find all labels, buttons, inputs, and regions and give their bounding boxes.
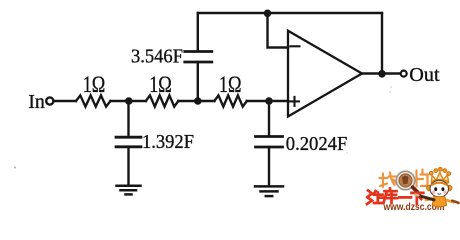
svg-text:1Ω: 1Ω	[149, 72, 172, 97]
svg-text:0.2024F: 0.2024F	[286, 133, 348, 155]
svg-text:Out: Out	[409, 64, 440, 86]
svg-text:1Ω: 1Ω	[219, 72, 242, 97]
svg-text:1.392F: 1.392F	[142, 131, 194, 153]
svg-text:1Ω: 1Ω	[83, 72, 106, 97]
svg-text:In: In	[28, 91, 45, 113]
svg-text:3.546F: 3.546F	[131, 46, 183, 68]
